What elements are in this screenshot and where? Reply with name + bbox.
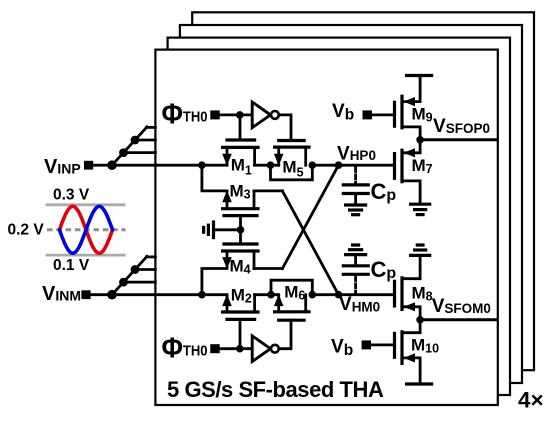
- VINP fanout stub 2: [135, 139, 155, 142]
- transistor M6 (dummy, S/D shorted): [271, 280, 312, 320]
- VINP fanout node dots: [107, 160, 117, 170]
- wire M6 to M8 gate (VHM0 line): [312, 293, 394, 296]
- sine plot: 0.3V level line: [46, 203, 126, 206]
- transistor M3 (gate down, legs up): [202, 165, 283, 230]
- node dot gate tie: [237, 226, 245, 234]
- svg-text:0.1 V: 0.1 V: [53, 257, 90, 274]
- transistor M9 (SF bias, gate Vb): [373, 76, 421, 140]
- wire inverter bottom output to M6 gate: [279, 320, 291, 349]
- svg-text:5 GS/s SF-based THA: 5 GS/s SF-based THA: [167, 377, 384, 402]
- VINM fanout stub 3: [147, 255, 156, 258]
- node dot VINM/M4 tap: [198, 291, 206, 299]
- capacitor Cp bottom: dashed tap: [354, 277, 357, 293]
- AC-ground tie of M3/M4 gates: [204, 222, 241, 238]
- inverted ground above M8: [417, 243, 423, 246]
- node dot VSFOP0: [416, 136, 424, 144]
- wire phi_TH0 top: [218, 114, 252, 117]
- ground above Cp bottom (inverted): [353, 243, 359, 246]
- VINP fanout diagonal: [112, 127, 147, 165]
- node dot phi_TH0 top: [236, 111, 244, 119]
- wire VSFOM0 output: [420, 318, 498, 321]
- wire VSFOP0 output: [420, 138, 498, 141]
- VINP fanout stub 1: [124, 151, 156, 154]
- node dot VINP/M3 tap: [198, 161, 206, 169]
- svg-text:4×: 4×: [518, 388, 544, 413]
- cross wire M4 to VHP0: [282, 165, 338, 268]
- terminal square VINM: [81, 290, 90, 299]
- node dots at M6: [267, 291, 275, 299]
- terminal square VINP: [84, 161, 93, 170]
- capacitor Cp top plates: [343, 183, 368, 186]
- transistor M5 (dummy, S/D shorted): [271, 141, 313, 180]
- ground under M7: [411, 203, 430, 206]
- wire M1 right leg to M5: [255, 164, 279, 167]
- transistor M4 (gate up, legs down): [202, 230, 283, 295]
- svg-text:0.3 V: 0.3 V: [53, 187, 90, 204]
- stacked box 4 (backmost): [192, 12, 534, 370]
- red sine wave (VINP): [60, 206, 113, 253]
- VINM fanout stub 1: [124, 281, 156, 284]
- transistor M2 (NMOS pass, gate down): [222, 294, 258, 348]
- transistor M1 (NMOS pass, gate up): [222, 115, 258, 166]
- wire M5 to M7 gate (VHP0 line): [312, 164, 394, 167]
- VINM fanout node dots: [107, 290, 117, 300]
- transistor M7 (SF input from VHP0): [395, 140, 421, 202]
- node dot phi_TH0 bottom: [236, 345, 244, 353]
- stacked box 1 front: 5 GS/s SF-based THA block: [155, 50, 497, 405]
- ground under Cp top: [346, 203, 366, 206]
- terminal square Vb top: [363, 110, 372, 119]
- wire M2 right leg to M6: [255, 293, 279, 296]
- blue sine wave (VINM): [60, 206, 113, 253]
- transistor M8 (SF input from VHM0): [395, 255, 421, 319]
- inverter top: [252, 102, 270, 128]
- VINM fanout diagonal: [112, 256, 147, 294]
- VDD rail for M9: [407, 74, 432, 77]
- wire VINM main line to M2: [89, 293, 227, 296]
- svg-text:0.2 V: 0.2 V: [8, 222, 45, 239]
- capacitor Cp top: dashed tap: [354, 168, 357, 184]
- terminal square phi_TH0 top: [210, 110, 219, 119]
- wire inverter top output to M5 gate: [279, 115, 291, 141]
- node dot VSFOM0: [416, 316, 424, 324]
- VINM fanout stub 2: [135, 268, 155, 271]
- VSS rail for M10: [407, 382, 432, 385]
- node VHM0 dot: [335, 291, 343, 299]
- terminal square Vb bottom: [362, 340, 371, 349]
- cross wire M3 to VHM0: [282, 191, 338, 295]
- wire phi_TH0 bottom: [218, 347, 252, 350]
- wire VINP main line to M1: [92, 164, 227, 167]
- stacked box 3: [180, 25, 522, 383]
- terminal square phi_TH0 bottom: [210, 344, 219, 353]
- capacitor Cp bottom plates: [343, 264, 368, 267]
- VINP fanout stub 3: [147, 126, 156, 129]
- node VHP0 dot: [335, 161, 343, 169]
- stacked box 2: [168, 38, 510, 395]
- sine plot: 0.2V dashed midline: [47, 228, 126, 231]
- sine plot: 0.1V level line: [46, 254, 126, 257]
- node dots at M5: [267, 161, 275, 169]
- transistor M10 (SF bias, gate Vb): [373, 320, 421, 384]
- inverter bottom: [252, 336, 270, 362]
